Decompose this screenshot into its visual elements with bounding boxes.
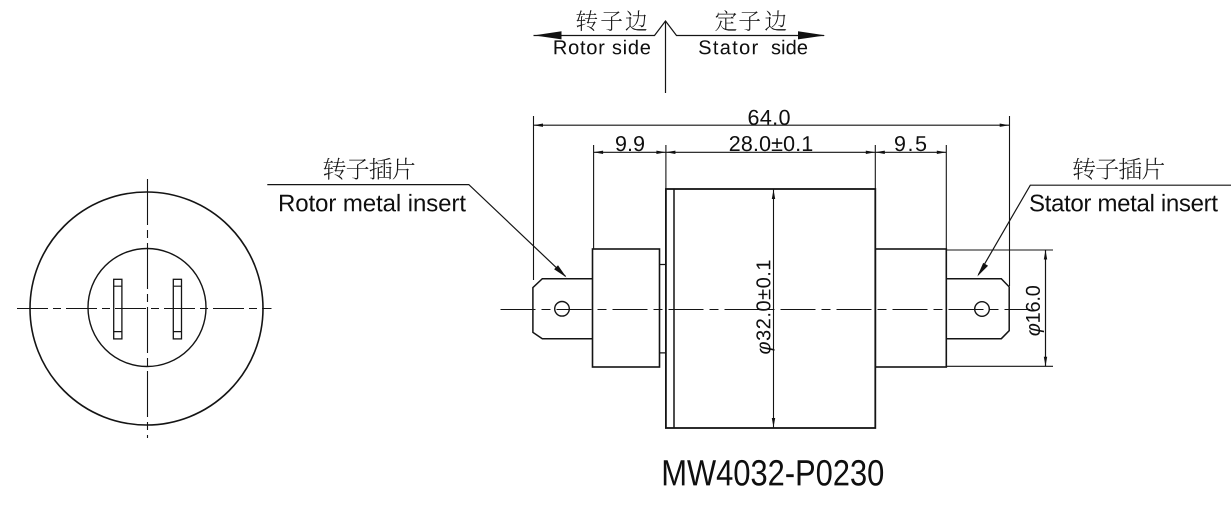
label: rotor side (Chinese) — [576, 10, 646, 31]
title: part number — [664, 460, 883, 486]
dimension 9.5: extension line right — [945, 145, 947, 249]
label: Rotor metal insert — [280, 194, 466, 212]
side view: left collar — [593, 249, 660, 367]
top direction indicator: left arrowhead — [534, 31, 562, 39]
side view: main cylinder body — [666, 189, 875, 428]
dimension 9.5: dimension line — [875, 151, 946, 153]
dimension φ32.0±0.1: dimension line — [773, 190, 775, 428]
side view: left tab hole — [555, 302, 570, 317]
leader: stator metal insert line — [978, 185, 1231, 275]
side view: body inner step line — [673, 189, 675, 428]
dimension 64.0: value — [749, 110, 790, 125]
dimension 64.0: extension lines — [534, 116, 1010, 286]
leader: rotor metal insert line — [267, 185, 565, 277]
side view: right collar — [875, 249, 946, 367]
dimension φ16.0: value (rotated) — [1026, 286, 1044, 336]
front view: outer circle — [30, 192, 263, 425]
label: Stator side — [699, 40, 758, 54]
top direction indicator: baseline with tent — [534, 21, 825, 36]
dimension 9.9: extension lines — [594, 145, 666, 249]
side view: right metal insert tab — [946, 279, 1009, 339]
dimension φ32.0±0.1: value (rotated) — [756, 261, 774, 354]
leader: rotor arrowhead — [554, 265, 566, 277]
dimension 28.0±0.1: value — [730, 136, 812, 151]
dimension φ16.0: dimension line — [1045, 250, 1047, 366]
top direction indicator: right arrowhead — [798, 31, 826, 39]
dimension 64.0: arrowheads — [534, 124, 544, 127]
side view: left step notch lines — [660, 265, 666, 353]
label: stator side (Chinese) — [715, 10, 786, 31]
dimension 28.0±0.1: extension line right — [874, 145, 876, 189]
dimension 9.5: value — [895, 136, 926, 151]
top direction indicator: vertical stem — [665, 21, 667, 93]
leader: stator arrowhead — [977, 263, 988, 277]
side view: right tab hole — [975, 302, 990, 317]
side view: horizontal center line — [501, 309, 1031, 311]
dimension φ16.0: extension lines — [946, 250, 1053, 366]
label: Rotor side — [555, 40, 651, 55]
front view: right insert slot — [173, 279, 181, 339]
label: Stator metal insert — [1030, 194, 1218, 212]
front view: vertical center line — [147, 179, 149, 438]
dimension 28.0±0.1: dimension line — [666, 151, 875, 153]
dimension 64.0: dimension line — [534, 124, 1010, 126]
dimension 9.9: value — [616, 136, 644, 151]
front view: inner circle — [88, 249, 206, 367]
label: stator insert (Chinese) — [1073, 158, 1164, 180]
side view: left metal insert tab — [533, 279, 593, 339]
dimension 9.9: dimension line — [594, 151, 666, 153]
front view: left insert slot — [114, 279, 122, 339]
front view: horizontal center line — [13, 308, 272, 310]
label: rotor insert (Chinese) — [324, 158, 415, 180]
